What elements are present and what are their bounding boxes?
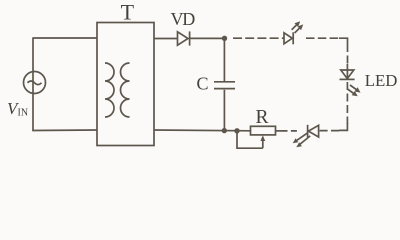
LED2 triangle bbox=[341, 70, 354, 79]
wire: left loop left vertical bbox=[32, 38, 34, 131]
wire: left loop top bbox=[32, 37, 97, 39]
LED1 cathode bar bbox=[292, 32, 294, 44]
junction node C bottom bbox=[222, 128, 227, 133]
LED3 emission arrow a bbox=[297, 133, 308, 141]
capacitor C top plate bbox=[214, 81, 235, 83]
capacitor C bottom plate bbox=[214, 88, 235, 90]
wire: top-right corner bbox=[339, 38, 348, 44]
AC source sine wave bbox=[28, 81, 42, 85]
dashed wire: node to LED1 bbox=[233, 37, 284, 39]
diode VD triangle bbox=[178, 32, 189, 45]
LED1 triangle bbox=[284, 33, 292, 44]
LED2 emission arrow a bbox=[350, 85, 357, 90]
wire: VD to node bbox=[190, 37, 225, 39]
LED1 emission arrow a bbox=[292, 25, 297, 30]
dashed wire: corner to LED3 bbox=[319, 130, 339, 132]
wire: box right to VD bbox=[154, 38, 178, 40]
LED2 cathode bar bbox=[340, 78, 355, 80]
R wiper arrowhead bbox=[260, 135, 265, 141]
R wiper arrow shaft bbox=[262, 140, 264, 148]
dashed wire: R to LED3 bbox=[282, 130, 299, 132]
transformer secondary winding bbox=[121, 63, 130, 117]
junction node top bbox=[222, 36, 227, 41]
dashed wire: LED1 to top-right corner bbox=[306, 37, 339, 39]
LED1 emission arrow b bbox=[295, 28, 300, 33]
capacitor C top lead bbox=[223, 38, 225, 81]
transformer T box bbox=[97, 23, 154, 146]
wire: R right lead bbox=[276, 130, 282, 132]
AC source circle bbox=[24, 72, 46, 94]
diode VD cathode bar bbox=[189, 31, 191, 45]
svg-text:IN: IN bbox=[18, 108, 29, 119]
junction node R return bbox=[234, 128, 239, 133]
svg-text:VD: VD bbox=[171, 9, 196, 29]
svg-text:T: T bbox=[121, 0, 135, 24]
LED2 wire stub bbox=[346, 64, 348, 79]
LED2 emission arrow b bbox=[347, 89, 354, 94]
wire: bottom rail box to R bbox=[154, 129, 251, 132]
resistor R body bbox=[251, 126, 276, 135]
svg-text:C: C bbox=[197, 73, 209, 93]
R wiper return wire bbox=[237, 131, 263, 148]
LED3 cathode bar bbox=[307, 125, 309, 137]
transformer primary winding bbox=[105, 63, 114, 117]
svg-text:LED: LED bbox=[365, 71, 398, 90]
capacitor C bottom lead bbox=[223, 90, 225, 131]
svg-text:R: R bbox=[256, 107, 269, 128]
LED3 emission arrow b bbox=[300, 136, 310, 144]
wire: left loop bottom bbox=[32, 129, 97, 132]
dashed wire: corner down to LED2 bbox=[347, 44, 349, 66]
LED3 triangle bbox=[308, 125, 318, 137]
dashed wire: LED2 down to bottom corner bbox=[346, 82, 348, 124]
wire: bottom-right corner bbox=[339, 123, 347, 130]
